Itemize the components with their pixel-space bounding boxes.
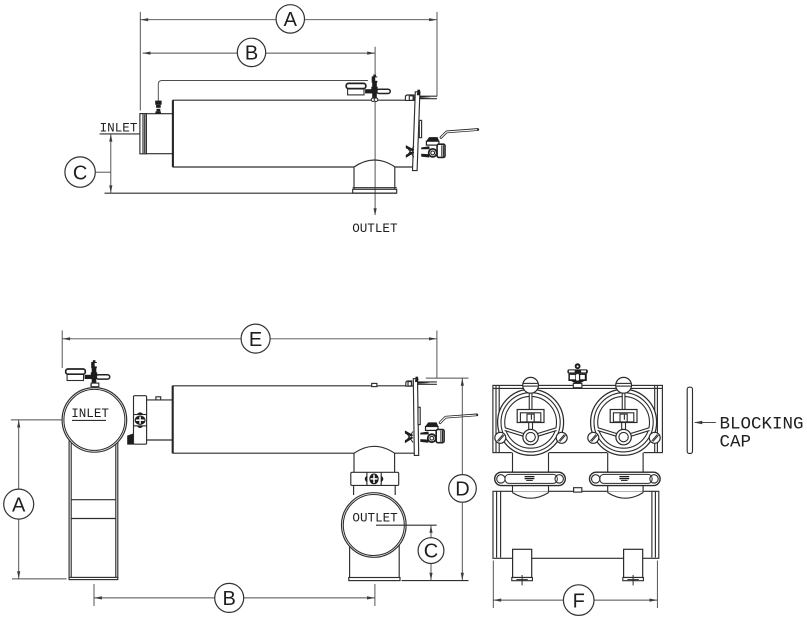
dimension E — [62, 324, 437, 353]
outlet centerline / B right extension with leader arrow — [374, 47, 377, 216]
svg-text:OUTLET: OUTLET — [352, 511, 398, 525]
right foot — [623, 549, 644, 585]
gauge + vent valve assembly on body top — [346, 75, 390, 102]
svg-text:E: E — [249, 329, 262, 351]
ball valve on cover (top view) — [406, 130, 478, 158]
svg-text:INLET: INLET — [100, 121, 138, 135]
vessel body (top view) — [173, 100, 415, 167]
cover plate (right flange) — [413, 90, 422, 171]
dimension B ticks and line (bottom view) — [94, 583, 375, 612]
outlet lower stub walls — [350, 485, 400, 577]
svg-text:A: A — [284, 9, 298, 31]
svg-text:C: C — [424, 540, 438, 562]
dimension A vertical — [4, 420, 34, 579]
right handwheel — [588, 377, 660, 455]
davit arm (bottom view) — [418, 382, 437, 384]
dimension A — [140, 5, 437, 33]
vent valve at top center — [567, 363, 587, 387]
cover davit bracket (bottom view) — [406, 381, 412, 386]
blocking cap bar — [687, 387, 692, 453]
inlet clamp dark lower lug — [127, 433, 133, 444]
stand legs — [69, 437, 118, 580]
left handwheel — [495, 377, 567, 455]
dimension A extension (inlet centerline, to the left) — [11, 419, 92, 421]
dimension A extension line right — [436, 12, 438, 97]
svg-text:A: A — [12, 494, 26, 516]
dimension A extension line left — [139, 12, 141, 111]
dimension F — [493, 585, 657, 616]
svg-text:INLET: INLET — [71, 407, 109, 421]
davit arm — [420, 96, 437, 99]
left foot — [512, 549, 533, 585]
svg-text:C: C — [73, 162, 87, 184]
outlet stub (top view) — [353, 167, 397, 193]
dimension C top extension (outlet centerline) — [376, 524, 437, 526]
ground reference line — [402, 580, 469, 582]
upper housing — [493, 385, 663, 452]
svg-text:D: D — [455, 478, 469, 500]
inlet neck spool — [146, 114, 172, 154]
gauge sensing tube — [158, 81, 368, 101]
dimension C vertical (bottom view) — [418, 525, 444, 580]
svg-text:OUTLET: OUTLET — [352, 222, 398, 236]
small lug on shell top — [574, 488, 582, 492]
gauge mounting boss on inlet circle — [91, 383, 99, 387]
dimension A bottom extension — [12, 578, 67, 580]
dimension E extension left — [61, 331, 63, 369]
cover plate (bottom view) — [413, 377, 420, 456]
petcock on inlet neck — [155, 101, 161, 114]
base reference line (outlet face plane) — [105, 192, 397, 194]
outlet stub upper walls — [354, 453, 395, 472]
dimension C balloon and leader — [65, 157, 111, 187]
left clamp band — [495, 472, 566, 485]
svg-text:B: B — [223, 588, 236, 610]
vessel body (bottom view) — [172, 383, 414, 453]
inlet flange circle — [62, 388, 127, 453]
inlet clamp band (vertical) — [134, 396, 147, 445]
outlet base flange — [349, 578, 400, 581]
dimension D vertical — [449, 378, 477, 580]
dimension F extensions — [492, 561, 494, 609]
outlet clamp band (horizontal) — [351, 472, 399, 485]
dimension C vertical line — [109, 134, 112, 193]
gauge + vent valve assembly above inlet — [66, 360, 110, 387]
cover davit bracket — [405, 95, 414, 100]
dimension B — [143, 38, 376, 66]
lower shell — [493, 491, 659, 558]
ball valve on cover (bottom view) — [405, 415, 477, 443]
INLET underline / centerline — [100, 133, 140, 135]
right basket neck — [607, 450, 644, 498]
svg-text:F: F — [573, 590, 585, 612]
outlet flange circle — [342, 493, 407, 558]
inlet flange — [140, 114, 147, 154]
dimension D top extension — [426, 377, 469, 379]
neck between clamp and body — [147, 397, 173, 440]
dimension E extension right — [436, 331, 438, 379]
svg-text:B: B — [245, 43, 258, 65]
blocking cap leader arrow — [694, 421, 716, 425]
left basket neck — [512, 450, 549, 498]
right clamp band — [590, 472, 661, 485]
svg-text:CAP: CAP — [720, 432, 752, 452]
